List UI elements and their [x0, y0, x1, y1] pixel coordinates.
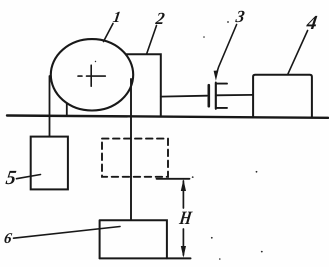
- wire: shaft clutch to box 4: [216, 94, 253, 96]
- box 6: [100, 220, 167, 258]
- leader line for 3 (arrow): [216, 25, 236, 75]
- pulley 1 (circle): [51, 39, 133, 110]
- wire: right rope to box 6: [130, 79, 132, 220]
- ground line: [7, 116, 328, 118]
- dimension label H: [178, 209, 192, 228]
- dashed box (raised position of 6): [102, 139, 168, 177]
- extension line at dashed box bottom: [157, 178, 190, 180]
- support stub under pulley: [66, 104, 68, 116]
- center cross: [78, 65, 105, 86]
- label 5: [4, 168, 17, 188]
- clutch 3 right half: [216, 84, 227, 108]
- leader line for 1: [104, 24, 114, 42]
- scan specks: [95, 21, 263, 260]
- leader line for 2: [147, 26, 157, 55]
- box 6 bottom edge extended (extension line): [100, 257, 191, 259]
- leader line for 4: [288, 31, 308, 75]
- label 3: [234, 8, 245, 25]
- label 4: [306, 13, 319, 33]
- clutch 3 left plate: [208, 85, 211, 106]
- box 4: [253, 75, 312, 117]
- dimension arrowhead up: [181, 179, 186, 191]
- label 2: [154, 10, 165, 27]
- wire: left rope to box 5: [49, 76, 51, 137]
- label 1: [112, 10, 122, 26]
- dimension line H lower segment: [182, 229, 184, 255]
- box 5: [31, 137, 68, 190]
- box 2: [124, 54, 161, 116]
- dimension line H upper segment: [182, 181, 184, 208]
- label 6: [2, 232, 12, 247]
- leader line for 6: [14, 227, 121, 239]
- leader line for 5: [17, 175, 41, 179]
- dimension arrowhead down: [181, 246, 186, 258]
- wire: shaft box2 to clutch: [161, 95, 207, 98]
